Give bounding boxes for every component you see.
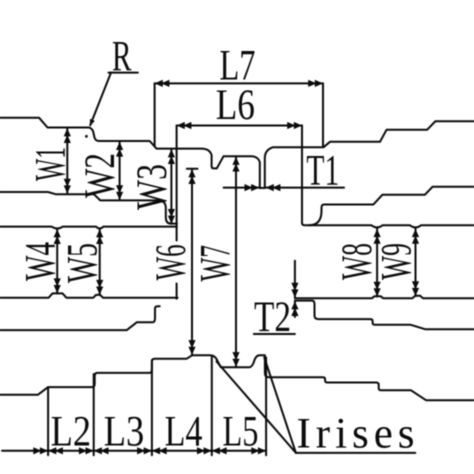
svg-text:L5: L5 xyxy=(223,409,259,456)
svg-text:W2: W2 xyxy=(77,153,124,198)
svg-text:W3: W3 xyxy=(129,164,176,210)
svg-text:W4: W4 xyxy=(17,242,64,281)
svg-text:W7: W7 xyxy=(193,245,240,282)
svg-text:T2: T2 xyxy=(254,294,291,341)
svg-text:W9: W9 xyxy=(374,243,421,280)
svg-text:L3: L3 xyxy=(104,409,145,456)
svg-text:W6: W6 xyxy=(148,244,195,280)
svg-text:W1: W1 xyxy=(28,147,75,181)
svg-text:L4: L4 xyxy=(165,409,203,456)
svg-text:W5: W5 xyxy=(59,243,106,283)
svg-text:L6: L6 xyxy=(216,82,255,129)
svg-text:T1: T1 xyxy=(306,148,339,195)
svg-text:L2: L2 xyxy=(51,409,92,456)
